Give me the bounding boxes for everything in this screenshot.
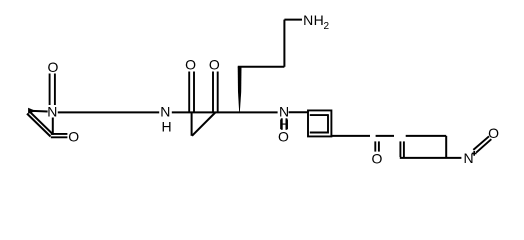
svg-text:2: 2 <box>324 21 330 32</box>
svg-text:N: N <box>47 104 57 120</box>
svg-text:O: O <box>371 151 382 167</box>
svg-text:H: H <box>162 119 172 135</box>
svg-text:O: O <box>488 125 499 141</box>
svg-text:O: O <box>47 59 58 75</box>
svg-text:O: O <box>68 129 79 145</box>
svg-text:N: N <box>160 104 170 120</box>
svg-text:O: O <box>278 128 289 144</box>
svg-text:O: O <box>185 57 196 73</box>
svg-text:O: O <box>209 57 220 73</box>
svg-text:N: N <box>464 150 474 166</box>
svg-text:H: H <box>314 12 324 28</box>
svg-text:N: N <box>303 12 313 28</box>
